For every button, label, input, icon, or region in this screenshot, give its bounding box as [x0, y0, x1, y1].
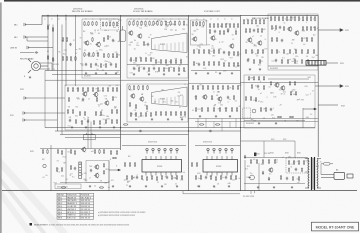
resistor R99: [223, 62, 224, 67]
svg-text:028: 028: [164, 29, 167, 31]
svg-text:vV7: vV7: [297, 182, 300, 184]
resistor R48: [183, 21, 184, 26]
svg-text:x4: x4: [282, 157, 284, 159]
resistor R32: [100, 63, 101, 68]
svg-text:XXXX XXX: XXXX XXX: [148, 142, 158, 144]
resistor R122: [282, 16, 283, 21]
resistor R12: [88, 21, 89, 26]
svg-text:.x: .x: [108, 30, 109, 32]
capacitor C35: [136, 176, 138, 180]
resistor R71: [199, 21, 200, 26]
svg-text:k0: k0: [46, 175, 48, 177]
svg-text:R17: R17: [220, 26, 223, 28]
resistor R191: [135, 104, 136, 109]
resistor R280: [215, 176, 216, 181]
resistor R220: [207, 107, 208, 112]
svg-text:k.v: k.v: [222, 177, 224, 179]
svg-text:7x4: 7x4: [139, 28, 142, 30]
svg-text:07: 07: [213, 106, 215, 108]
resistor R31: [90, 63, 91, 68]
svg-text:Cvk: Cvk: [170, 67, 173, 69]
svg-text:42: 42: [175, 183, 177, 185]
resistor R282: [230, 175, 231, 180]
svg-text:k4: k4: [306, 15, 308, 17]
resistor R278: [200, 175, 201, 180]
resistor R106: [255, 19, 256, 24]
resistor R168: [96, 97, 97, 102]
resistor R290: [274, 159, 275, 164]
resistor R205: [192, 85, 193, 90]
svg-text:77: 77: [113, 23, 115, 25]
resistor R209: [212, 85, 213, 90]
ground: [85, 126, 87, 129]
resistor R82: [219, 30, 220, 35]
resistor R8: [66, 56, 67, 61]
resistor R34: [115, 63, 116, 68]
wire: [30, 47, 53, 49]
jack J6 LINE OUT R: [23, 118, 26, 121]
node N5: [188, 130, 189, 131]
svg-text:.kk: .kk: [151, 25, 153, 27]
resistor R149: [307, 49, 308, 54]
resistor R289: [268, 159, 269, 164]
svg-text:4k7: 4k7: [196, 63, 199, 65]
wire: [26, 112, 65, 114]
svg-text:878: 878: [84, 173, 87, 175]
svg-text:MODEL RT-104/RT ONE: MODEL RT-104/RT ONE: [316, 226, 355, 230]
svg-text:V4: V4: [306, 56, 308, 58]
ground: [213, 185, 215, 188]
resistor R266: [141, 175, 142, 180]
svg-text:XXX-XX XX: XXX-XX XX: [81, 203, 91, 205]
svg-text:V01: V01: [201, 26, 204, 28]
ground: [161, 185, 163, 188]
svg-text:K7: K7: [279, 90, 281, 92]
resistor R79: [233, 23, 234, 28]
resistor R81: [209, 29, 210, 34]
resistor R115: [257, 49, 258, 54]
svg-text:XX-XXXX X: XX-XXXX X: [81, 212, 91, 214]
svg-text:RK1: RK1: [105, 169, 108, 171]
svg-text:v7: v7: [306, 53, 308, 55]
resistor R275: [129, 162, 130, 167]
svg-text:XXXX: XXXX: [160, 44, 166, 46]
resistor R20: [92, 37, 93, 42]
svg-text:k2: k2: [88, 99, 90, 101]
svg-text:xx: xx: [297, 100, 299, 102]
capacitor C11: [214, 30, 216, 34]
svg-text:R0: R0: [85, 92, 87, 94]
ground: [145, 185, 147, 188]
wire: [44, 80, 46, 127]
svg-text:778: 778: [183, 116, 186, 118]
svg-text:R4: R4: [129, 44, 131, 46]
resistor R225: [236, 107, 237, 112]
svg-text:8C4: 8C4: [97, 42, 100, 44]
resistor R136: [310, 26, 311, 31]
transistor Q19: [274, 82, 279, 88]
svg-text:Kx: Kx: [148, 37, 150, 39]
svg-text:77: 77: [150, 34, 152, 36]
transistor Q4: [137, 33, 142, 39]
resistor R116: [262, 49, 263, 54]
svg-text:V11: V11: [161, 89, 164, 91]
capacitor C36: [166, 176, 168, 180]
resistor R92: [233, 51, 234, 56]
svg-text:Rk: Rk: [284, 121, 286, 123]
resistor R249: [57, 149, 58, 154]
svg-text:0x4: 0x4: [306, 95, 309, 97]
capacitor C25: [139, 130, 143, 132]
wire second bus: [42, 16, 240, 18]
svg-text:.8: .8: [245, 32, 246, 34]
wire: [26, 119, 57, 121]
resistor R66: [173, 67, 174, 72]
resistor R60: [180, 59, 181, 64]
resistor R38: [141, 21, 142, 26]
diode D4: [268, 177, 270, 181]
svg-text:17: 17: [87, 119, 89, 121]
resistor R259: [56, 167, 57, 172]
resistor R135: [306, 26, 307, 31]
switch function table: [57, 193, 94, 219]
svg-text:1vk: 1vk: [217, 92, 220, 94]
ground: [258, 122, 260, 125]
output arrow headphones: [318, 104, 338, 106]
svg-text:.2: .2: [273, 108, 274, 110]
resistor R147: [295, 49, 296, 54]
resistor R193: [130, 112, 131, 117]
svg-text:Cx2: Cx2: [148, 55, 151, 57]
wire PSU drop: [263, 141, 265, 158]
svg-text:R1: R1: [144, 105, 146, 107]
svg-text:XX-XXX XXXX: XX-XXX XXXX: [243, 196, 255, 198]
svg-text:21: 21: [291, 43, 293, 45]
resistor R251: [70, 149, 71, 154]
svg-text:XXXX: XXXX: [216, 166, 222, 168]
svg-text:x7: x7: [147, 72, 149, 74]
resistor R3: [47, 55, 48, 60]
resistor R241: [265, 107, 266, 112]
ground: [163, 73, 165, 76]
svg-text:21v: 21v: [108, 62, 111, 64]
resistor R281: [220, 175, 221, 180]
resistor R292: [293, 160, 294, 165]
resistor R176: [111, 109, 112, 114]
capacitor C44: [295, 168, 297, 172]
resistor R221: [213, 107, 214, 112]
resistor R143: [271, 49, 272, 54]
resistor R169: [112, 96, 113, 101]
svg-text:Vx: Vx: [229, 99, 231, 101]
resistor R222: [219, 107, 220, 112]
footnote marker: [30, 223, 33, 226]
svg-text:xx: xx: [292, 19, 294, 21]
svg-text:11: 11: [70, 175, 72, 177]
wire: [108, 161, 110, 191]
svg-text:C21: C21: [157, 62, 160, 64]
resistor R98: [218, 61, 219, 66]
resistor R101: [233, 62, 234, 67]
resistor R87: [203, 49, 204, 54]
resistor R68: [183, 67, 184, 72]
resistor R200: [165, 111, 166, 116]
svg-text:R11: R11: [246, 177, 249, 179]
svg-text:POSITION: POSITION: [81, 194, 90, 196]
ground: [112, 185, 114, 188]
capacitor C4: [85, 63, 87, 66]
transistor Q1: [84, 40, 89, 46]
svg-text:1v7: 1v7: [165, 27, 168, 29]
ground: [99, 126, 101, 129]
svg-text:8R1: 8R1: [226, 24, 229, 26]
svg-text:88: 88: [239, 106, 241, 108]
resistor R295: [288, 168, 289, 173]
transistor Q8: [247, 37, 252, 43]
svg-text:k1v: k1v: [253, 159, 256, 161]
svg-text:04: 04: [97, 65, 99, 67]
resistor R240: [260, 107, 261, 112]
resistor R126: [298, 16, 299, 21]
resistor R85: [193, 49, 194, 54]
transistor Q13: [93, 92, 98, 98]
svg-text:XXXX: XXXX: [160, 99, 166, 101]
resistor R252: [74, 150, 75, 155]
svg-text:xx: xx: [253, 19, 255, 21]
resistor R134: [302, 26, 303, 31]
svg-text:k8x: k8x: [297, 179, 300, 181]
svg-text:v0: v0: [235, 67, 237, 69]
resistor R46: [174, 21, 175, 26]
svg-text:K7: K7: [224, 61, 226, 63]
resistor R236: [295, 91, 296, 96]
svg-text:11: 11: [213, 92, 215, 94]
capacitor C19: [82, 98, 84, 102]
resistor R37: [137, 21, 138, 26]
meter M2: [252, 109, 256, 113]
electrolytic capacitor C41: [231, 148, 233, 153]
resistor R172: [79, 111, 80, 116]
svg-text:xx: xx: [231, 19, 233, 21]
svg-text:K2: K2: [47, 51, 49, 53]
resistor R297: [280, 175, 281, 180]
svg-text:24: 24: [94, 30, 96, 32]
svg-text:FUNCTION: FUNCTION: [67, 194, 77, 196]
resistor R54: [150, 57, 151, 62]
connector bank CN1: [79, 162, 82, 179]
sub-board box REC/PB amplifier: [82, 19, 121, 78]
wire: [127, 64, 188, 66]
svg-text:074: 074: [119, 20, 122, 22]
resistor R271: [171, 175, 172, 180]
resistor R159: [82, 87, 83, 92]
svg-text:VV4: VV4: [54, 182, 57, 184]
svg-text:08: 08: [151, 96, 153, 98]
sub-board box meter amplifier: [244, 75, 315, 128]
resistor R155: [307, 59, 308, 64]
svg-text:47: 47: [145, 44, 147, 46]
svg-text:41: 41: [57, 169, 59, 171]
wire: [52, 25, 54, 71]
svg-text:71x: 71x: [250, 173, 253, 175]
resistor R73: [209, 23, 210, 28]
resistor R118: [259, 59, 260, 64]
resistor R91: [228, 51, 229, 56]
capacitor C18: [275, 59, 277, 63]
resistor R181: [99, 120, 100, 125]
svg-text:2R4: 2R4: [130, 114, 133, 116]
wire: [244, 160, 246, 191]
resistor R246: [215, 124, 220, 125]
svg-text:RCx: RCx: [254, 46, 257, 48]
svg-text:k7: k7: [209, 54, 211, 56]
svg-text:k0x: k0x: [313, 35, 316, 37]
svg-text:2V8: 2V8: [250, 78, 253, 80]
wire main supply bus: [42, 14, 318, 16]
svg-text:SW 3: SW 3: [58, 203, 62, 205]
resistor R84: [235, 30, 236, 35]
wire: [258, 163, 260, 191]
resistor R190: [129, 102, 130, 107]
resistor R264: [126, 175, 127, 180]
resistor R189: [147, 85, 148, 90]
resistor R119: [270, 16, 271, 21]
ground: [215, 115, 217, 118]
resistor R187: [138, 85, 139, 90]
resistor R15: [102, 22, 103, 27]
svg-text:8.v: 8.v: [72, 176, 74, 178]
ground: [229, 115, 231, 118]
ground: [115, 72, 117, 75]
resistor R227: [253, 76, 254, 81]
capacitor C21: [87, 120, 89, 124]
svg-text:.4: .4: [136, 175, 137, 177]
resistor R188: [142, 85, 143, 90]
resistor R40: [149, 21, 150, 26]
wire: [44, 71, 46, 81]
output arrow line out: [315, 85, 343, 88]
svg-text:4.x: 4.x: [139, 67, 141, 69]
svg-text:Rx7: Rx7: [312, 57, 315, 59]
svg-text:.28: .28: [279, 105, 281, 107]
svg-text:C8: C8: [109, 37, 111, 39]
resistor R248: [47, 149, 48, 154]
REC/PB head symbol: [28, 59, 48, 73]
wire center vertical bus: [188, 15, 190, 190]
svg-text:RCk: RCk: [99, 50, 102, 52]
svg-text:SYSTEM CONT: SYSTEM CONT: [204, 11, 220, 13]
resistor R148: [301, 49, 302, 54]
svg-text:V41: V41: [75, 116, 78, 118]
transistor Q17: [202, 94, 207, 100]
svg-text:K10: K10: [305, 86, 308, 88]
resistor R178: [75, 119, 76, 124]
svg-text:4v4: 4v4: [113, 27, 116, 29]
svg-text:KC8: KC8: [302, 30, 305, 32]
capacitor C9: [143, 67, 145, 71]
resistor R77: [225, 23, 226, 28]
resistor R210: [217, 85, 218, 90]
resistor R285: [196, 162, 197, 167]
svg-text:xx: xx: [58, 19, 60, 21]
svg-text:V4: V4: [235, 101, 237, 103]
relay RL2 (tall component): [120, 26, 126, 42]
resistor R90: [218, 49, 219, 54]
svg-text:REC/PB SW BOARD: REC/PB SW BOARD: [72, 10, 93, 13]
resistor R177: [116, 109, 117, 114]
resistor R33: [105, 63, 106, 68]
svg-text:2K8: 2K8: [89, 166, 92, 168]
svg-text:.k: .k: [310, 94, 311, 96]
ground: [167, 118, 169, 121]
svg-text:00: 00: [139, 57, 141, 59]
wire: [40, 63, 52, 71]
resistor R44: [165, 21, 166, 26]
capacitor C6: [110, 63, 112, 66]
wire: [45, 70, 82, 72]
resistor R250: [61, 150, 62, 155]
resistor R239: [255, 97, 256, 102]
svg-text:42: 42: [94, 186, 96, 188]
transistor Q5: [192, 36, 197, 42]
electrolytic capacitor C34: [176, 148, 178, 153]
ground: [228, 185, 230, 188]
electrolytic capacitor C33: [170, 148, 172, 153]
svg-text:SW 1: SW 1: [58, 197, 62, 199]
svg-text:8v7: 8v7: [245, 169, 248, 171]
resistor R160: [87, 87, 88, 92]
resistor R166: [116, 87, 117, 92]
electrolytic capacitor C32: [164, 148, 166, 153]
capacitor C16: [279, 26, 281, 30]
svg-text:KK8: KK8: [56, 64, 59, 66]
resistor R11: [84, 21, 85, 26]
output arrow REC OUT: [318, 29, 343, 32]
wire drop a: [87, 118, 89, 149]
svg-text:x4: x4: [145, 102, 147, 104]
resistor R96: [208, 61, 209, 66]
svg-text:K2: K2: [57, 161, 59, 163]
resistor R65: [168, 67, 169, 72]
IC U3 power amplifier: [142, 156, 182, 176]
sub-board box power supply dashed: [286, 158, 308, 173]
svg-text:REC MUTE: REC MUTE: [67, 200, 77, 202]
motor M1: [43, 164, 46, 167]
IC U1 dolby processor: [152, 33, 188, 53]
jack J4 DIN: [24, 96, 27, 99]
resistor R163: [102, 87, 103, 92]
svg-text:47: 47: [84, 42, 86, 44]
svg-text:8x: 8x: [87, 117, 89, 119]
resistor R61: [138, 67, 139, 72]
wire: [40, 148, 120, 150]
resistor R270: [161, 175, 162, 180]
capacitor C17: [281, 39, 283, 43]
resistor R80: [237, 23, 238, 28]
electrolytic capacitor C31: [158, 148, 160, 153]
svg-text:k8: k8: [217, 184, 219, 186]
svg-text:k20: k20: [263, 29, 266, 31]
electrolytic capacitor C39: [219, 148, 221, 153]
resistor R269: [156, 176, 157, 181]
resistor R215: [195, 95, 196, 100]
svg-text:SW 5: SW 5: [58, 209, 62, 211]
svg-text:8.1: 8.1: [282, 58, 284, 60]
resistor R277: [195, 175, 196, 180]
capacitor C45: [286, 177, 288, 181]
ground: [181, 118, 183, 121]
resistor R78: [229, 23, 230, 28]
